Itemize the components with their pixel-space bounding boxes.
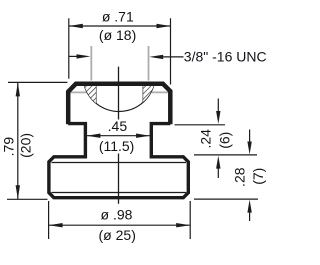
arrow .24 top (pointing down) [217,99,219,113]
dimension ø .98 extension line right [189,201,191,239]
dimension .79 extension line top [8,81,67,83]
svg-text:.79: .79 [1,137,17,157]
arrow .45 left [87,134,101,138]
svg-text:(20): (20) [18,133,34,158]
arrow ø .71 left [69,24,83,28]
thread extension line right (gray) [148,46,150,81]
arrow ø .98 left [49,223,63,227]
thread extension line left (gray) [90,46,92,81]
dimension .24 extension line [175,124,226,126]
arrow ø .71 right [157,24,171,28]
spherical seat edge line right (gray) [152,91,168,93]
hatch left crescent [84,85,96,104]
arrow ø .98 right [176,223,190,227]
dimension .28 extension line top [194,154,257,156]
svg-text:(ø 18): (ø 18) [99,27,136,43]
thread bore line left (thin black) [95,85,97,103]
dimension ø .98 line [49,224,191,226]
svg-text:(11.5): (11.5) [99,138,135,154]
arrow .28 top (pointing down) [249,130,251,143]
svg-text:3/8" -16 UNC: 3/8" -16 UNC [184,49,267,65]
flange chamfer edge line bottom [52,192,187,194]
dimension ø .71 extension line left [68,18,70,78]
svg-text:.24: .24 [198,129,214,149]
arrow .79 bottom [16,185,20,199]
dimension ø .98 extension line left [48,201,50,239]
svg-text:.45: .45 [108,118,128,134]
thread bore line right (thin black) [142,85,144,102]
part outline: head (thicker stroke) [68,84,170,125]
dimension .28 extension line bottom [194,198,258,200]
part outline: step, neck and flange [49,124,188,198]
dimension ø .71 line [69,25,171,27]
svg-text:ø .98: ø .98 [101,207,133,223]
svg-text:(ø 25): (ø 25) [99,227,136,243]
dimension .45 line [87,135,150,137]
svg-text:ø .71: ø .71 [102,9,134,25]
thread leader left arrow [69,55,78,57]
ball seat arc [84,86,153,112]
svg-text:.28: .28 [232,167,248,187]
spherical seat edge line left (gray) [70,91,87,93]
centerline vertical axis [118,67,120,120]
svg-text:(7): (7) [250,168,266,185]
flange chamfer edge line top [52,162,187,164]
dimension ø .71 extension line right [170,18,172,84]
arrow .45 right [136,134,150,138]
thread leader right arrow [162,56,184,58]
arrow .24 bottom (pointing up) [217,167,219,178]
dimension .79 extension line bottom [7,198,48,200]
arrow .28 bottom (pointing up) [249,211,251,221]
svg-text:(6): (6) [217,132,233,149]
arrow .79 top [16,82,20,96]
dimension .79 line [17,82,19,199]
hatch right crescent [143,85,154,102]
